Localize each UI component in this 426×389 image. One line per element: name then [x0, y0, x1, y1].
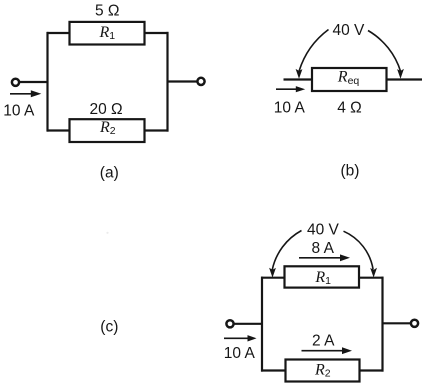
resistor R1 (a)	[70, 22, 145, 45]
svg-text:8 A: 8 A	[312, 240, 335, 257]
svg-text:10 A: 10 A	[274, 99, 306, 116]
current arrow 10 A (b)	[276, 88, 297, 90]
svg-text:40 V: 40 V	[307, 221, 340, 238]
svg-text:2 A: 2 A	[312, 333, 335, 350]
wire bus to R1 (c)	[261, 277, 286, 279]
terminal right (c)	[411, 320, 418, 327]
svg-text:(a): (a)	[100, 165, 119, 182]
voltage arc right (b)	[368, 31, 401, 72]
wire right terminal (a)	[167, 80, 198, 82]
current arrow 10 A (c)	[224, 337, 248, 339]
terminal left (a)	[12, 79, 19, 86]
wire bus to R1 (a)	[47, 32, 71, 34]
wire bus to R2 (a)	[47, 129, 71, 131]
wire R2 to right bus (a)	[144, 129, 169, 131]
svg-text:20 Ω: 20 Ω	[90, 101, 123, 118]
wire bus to R2 (c)	[261, 369, 287, 371]
terminal left (c)	[226, 320, 233, 327]
current arrow 8 A (c)	[299, 257, 341, 259]
wire left bus (c)	[261, 277, 263, 372]
terminal right (a)	[197, 78, 204, 85]
wire left bus (a)	[46, 32, 48, 132]
svg-text:10 A: 10 A	[3, 102, 35, 119]
resistor R2 (a)	[70, 119, 145, 142]
wire right terminal (c)	[382, 322, 411, 324]
svg-text:4 Ω: 4 Ω	[337, 99, 362, 116]
wire R2 to right bus (c)	[359, 369, 384, 371]
wire left terminal (c)	[234, 323, 263, 325]
wire R1 to right bus (c)	[358, 277, 384, 279]
svg-text:(b): (b)	[341, 162, 360, 179]
wire right (b)	[386, 78, 423, 80]
voltage arc right (c)	[344, 231, 374, 269]
resistor R2 (c)	[286, 360, 360, 382]
wire R1 to right bus (a)	[144, 32, 169, 34]
resistor R1 (c)	[285, 266, 360, 287]
svg-text:5 Ω: 5 Ω	[95, 3, 120, 20]
current arrow 10 A (a)	[10, 93, 32, 95]
current arrow 2 A (c)	[302, 350, 344, 352]
voltage arc left (c)	[272, 231, 301, 271]
voltage arc left (b)	[299, 30, 328, 72]
scan artifact dot	[106, 232, 108, 234]
wire right bus (a)	[166, 32, 168, 132]
svg-text:10 A: 10 A	[224, 345, 256, 362]
svg-text:(c): (c)	[100, 319, 118, 336]
wire left terminal to bus (a)	[20, 81, 49, 83]
wire left (b)	[284, 78, 314, 80]
svg-text:40 V: 40 V	[333, 22, 366, 39]
wire right bus (c)	[381, 277, 383, 372]
resistor Req (b)	[312, 68, 387, 91]
